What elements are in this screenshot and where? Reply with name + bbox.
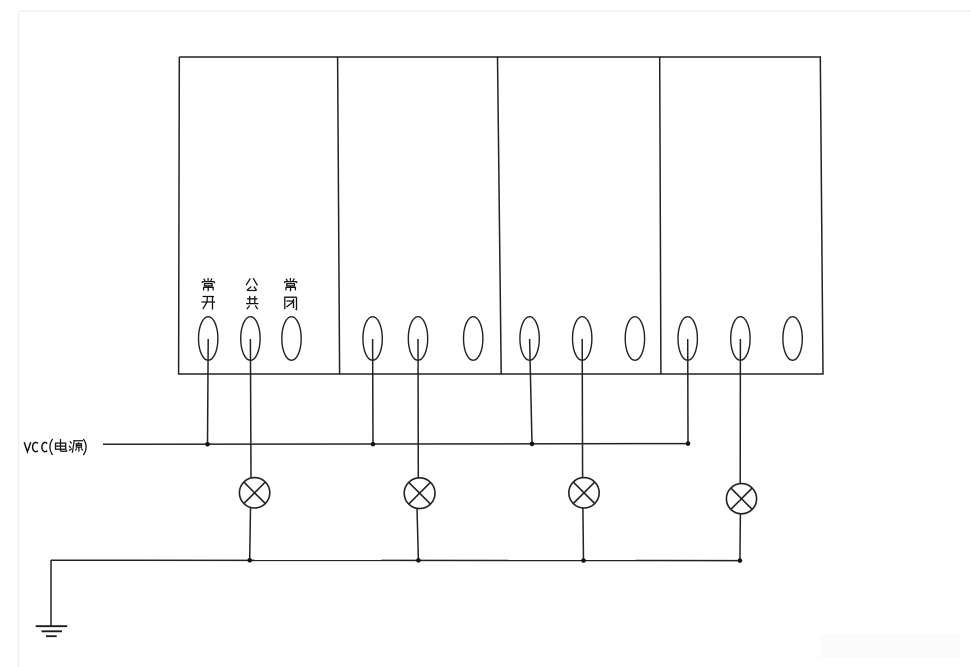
terminal COM K4: [731, 317, 750, 361]
ground: [36, 626, 67, 636]
junction NO-K4/VCC: [686, 441, 691, 446]
wire COM-K3 to lamp L3: [581, 339, 583, 478]
lamp L1: [239, 478, 269, 508]
terminal COM K3: [573, 317, 592, 361]
relay module K3 outline: [498, 57, 661, 374]
junction lamp L3/GND: [581, 558, 586, 563]
terminal NC K3: [625, 317, 644, 361]
terminal NO K2: [363, 317, 382, 361]
wire GND lead: [50, 560, 52, 626]
lamp L2: [404, 478, 435, 509]
lamp L4: [726, 484, 756, 514]
junction lamp L1/GND: [247, 558, 252, 563]
terminal NC K1: [282, 317, 301, 361]
wire NO-K3 to VCC: [530, 339, 532, 444]
wire NO-K1 to VCC: [207, 339, 210, 444]
wire NO-K4 to VCC: [687, 339, 689, 444]
terminal COM K1: [241, 317, 260, 361]
junction NO-K1/VCC: [205, 442, 210, 447]
net label VCC (电源): [24, 439, 86, 455]
wire COM-K4 to lamp L4: [739, 339, 741, 484]
wire lamp L3 to GND bus: [582, 508, 585, 561]
wire VCC bus: [103, 443, 688, 446]
wire NO-K2 to VCC: [372, 339, 374, 444]
label 常开 (NO) K1: [202, 278, 216, 310]
label 公共 (COM) K1: [246, 278, 258, 309]
wire GND bus: [51, 559, 740, 561]
terminal NC K2: [464, 317, 483, 361]
label 常闭 (NC) K1: [285, 278, 297, 310]
wire COM-K2 to lamp L2: [417, 339, 419, 478]
terminal NO K4: [678, 317, 697, 361]
relay module K2 outline: [338, 57, 502, 374]
terminal NC K4: [783, 317, 802, 361]
junction NO-K2/VCC: [371, 442, 376, 447]
lamp L3: [569, 478, 599, 508]
terminal COM K2: [408, 317, 427, 361]
relay module K1 outline: [179, 57, 340, 374]
relay module K4 outline: [660, 57, 823, 374]
wire lamp L2 to GND bus: [417, 508, 418, 560]
junction lamp L4/GND (bus end): [738, 558, 743, 563]
junction lamp L2/GND: [416, 558, 421, 563]
terminal NO K1: [199, 317, 218, 361]
terminal NO K3: [520, 317, 539, 361]
wire COM-K1 to lamp L1: [249, 339, 252, 478]
wire lamp L1 to GND bus: [249, 508, 252, 560]
wire lamp L4 to GND bus: [739, 514, 742, 561]
junction NO-K3/VCC: [530, 442, 535, 447]
